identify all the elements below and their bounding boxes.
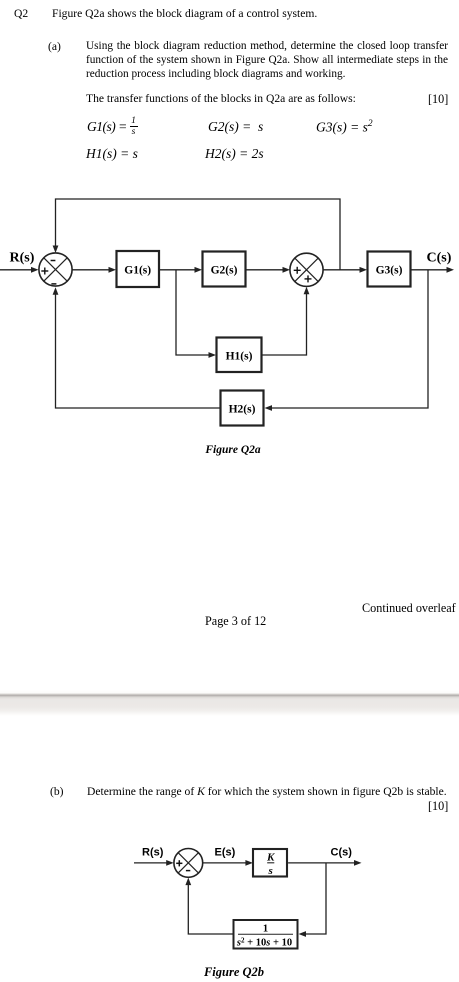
wire R(s) input [0, 269, 32, 271]
sum1 sign left plus [41, 268, 48, 275]
summing junction sum2 [290, 253, 323, 286]
Q2 heading [14, 7, 28, 21]
(b) label [50, 785, 64, 799]
arrowhead into sumB left [166, 860, 174, 866]
footer page 1 [362, 601, 456, 616]
formula H1(s)=s [86, 146, 138, 162]
summing junction sumB [174, 849, 203, 878]
arrowhead C(s) output [447, 267, 455, 273]
svg-text:s: s [268, 865, 273, 877]
arrowhead into sum1 left [31, 267, 39, 273]
wire G1 to G2 [160, 269, 197, 271]
sum1 sign bottom minus [51, 283, 56, 285]
svg-text:1: 1 [263, 924, 268, 935]
wire K/s to C(s) output [288, 862, 355, 864]
svg-text:Figure Q2b: Figure Q2b [203, 965, 264, 979]
wire sumB to K/s block [203, 862, 247, 864]
wire H2 output to sum1 bottom [56, 295, 221, 409]
arrowhead into G2 [195, 267, 203, 273]
(a) paragraph [86, 40, 448, 82]
formula G2(s)=s [208, 119, 263, 135]
sumB sign left plus [176, 860, 182, 866]
transfer functions line [86, 92, 356, 106]
svg-text:s2 + 10s + 10: s2 + 10s + 10 [236, 936, 292, 948]
block G2 [203, 252, 246, 287]
wire R(s) input Q2b [134, 862, 167, 864]
wire G3 to C(s) output [411, 269, 448, 271]
arrowhead into sum1 top [53, 246, 59, 254]
wire output node down to feedback block [305, 863, 326, 934]
svg-text:G3(s): G3(s) [376, 265, 403, 277]
wire sum2 to G3 [324, 269, 362, 271]
svg-text:R(s): R(s) [142, 847, 164, 859]
svg-text:E(s): E(s) [215, 847, 236, 859]
formula G1(s)=1/s [87, 119, 127, 135]
sumB sign bottom minus [186, 870, 190, 872]
arrowhead into G1 [109, 267, 117, 273]
svg-text:H2(s): H2(s) [229, 404, 256, 416]
block H1 [217, 338, 262, 373]
arrowhead into H1 [209, 352, 217, 358]
formula H2(s)=2s [205, 146, 264, 162]
svg-text:G1(s): G1(s) [124, 265, 151, 277]
arrowhead into G3 [360, 267, 368, 273]
block G3 [368, 252, 411, 287]
block K/s [253, 849, 287, 877]
svg-text:C(s): C(s) [427, 251, 452, 266]
wire output node down to H2 input [271, 270, 428, 408]
arrowhead into feedback block right [299, 931, 307, 937]
block H2 [221, 391, 264, 426]
arrowhead into sum1 bottom [53, 287, 59, 295]
arrowhead into sum2 bottom [304, 287, 310, 295]
sum2 sign bottom plus [305, 275, 312, 282]
block G1 [117, 251, 160, 287]
svg-text:R(s): R(s) [10, 251, 35, 266]
svg-text:H1(s): H1(s) [226, 351, 253, 363]
arrowhead C(s) output Q2b [354, 860, 362, 866]
wire sum1 to G1 [73, 269, 111, 271]
sum1 sign top minus [51, 260, 56, 262]
wire branch node after G1 down to H1 input [176, 270, 210, 355]
svg-text:Figure Q2a: Figure Q2a [204, 444, 261, 456]
arrowhead into K/s block [245, 860, 253, 866]
sum2 sign left plus [294, 267, 301, 274]
arrowhead into sumB bottom [185, 878, 191, 886]
wire H1 output up to sum2 bottom [263, 294, 307, 356]
svg-text:C(s): C(s) [331, 847, 353, 859]
svg-text:G2(s): G2(s) [211, 265, 238, 277]
wire feedback block to sumB bottom [188, 884, 233, 934]
wire G2 to sum2 [246, 269, 284, 271]
svg-text:K: K [266, 851, 275, 863]
summing junction sum1 [39, 253, 72, 286]
wire top feedback from node after sum2 to sum1 top [56, 199, 341, 270]
block 1/(s^2+10s+10) [234, 920, 298, 949]
formula G3(s)=s^2 [316, 119, 373, 136]
(a) label [48, 40, 61, 54]
arrowhead into sum2 left [283, 267, 291, 273]
arrowhead into H2 right [265, 405, 273, 411]
page break shadow band between page 1 and page 2 [0, 690, 459, 718]
